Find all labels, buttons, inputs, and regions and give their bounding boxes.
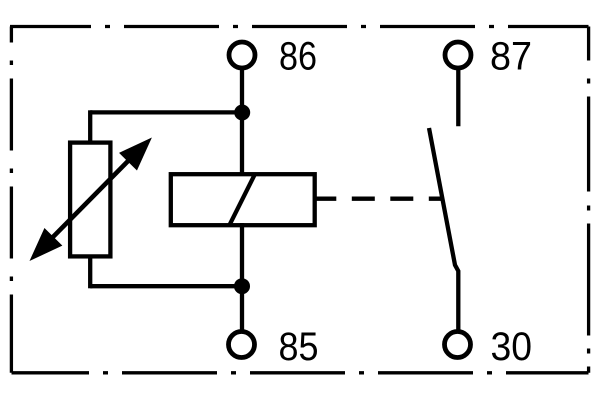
wire: coil bottom to terminal 85 [240, 223, 244, 332]
svg-text:86: 86 [279, 35, 317, 79]
relay coil K1 body [171, 174, 315, 225]
wire: terminal 86 to coil top [240, 68, 244, 176]
svg-text:85: 85 [279, 325, 319, 369]
enclosure border right (dash-dot) [587, 27, 590, 373]
svg-text:87: 87 [490, 35, 532, 79]
enclosure border bottom (dash-dot) [12, 371, 589, 374]
wire: terminal 87 stub [456, 68, 460, 126]
terminal 87 [445, 42, 471, 68]
mechanical link dashed [313, 197, 441, 201]
varistor arrow shaft [48, 156, 133, 242]
enclosure border top (dash-dot) [10, 25, 589, 28]
varistor R1 body [70, 143, 110, 257]
terminal 30 [445, 332, 471, 358]
wire: varistor bottom lead [88, 255, 92, 288]
wire: horizontal bottom branch to varistor [90, 284, 242, 288]
terminal 85 [229, 332, 255, 358]
node junction top [234, 105, 250, 121]
terminal 86 [229, 42, 255, 68]
wire: varistor top lead [88, 110, 92, 144]
coil diagonal stroke [229, 174, 255, 225]
varistor arrowhead bottom-left [30, 228, 63, 261]
switch blade S1 [429, 128, 458, 332]
varistor arrowhead top-right [119, 138, 152, 171]
svg-text:30: 30 [491, 325, 533, 369]
wire: horizontal top branch to varistor [90, 110, 242, 114]
node junction bottom [234, 278, 250, 294]
enclosure border left (dash-dot) [10, 27, 13, 373]
